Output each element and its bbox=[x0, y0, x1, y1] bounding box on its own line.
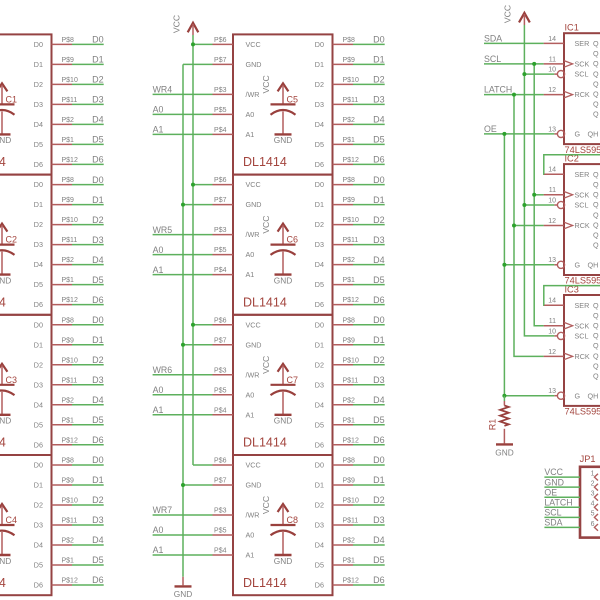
svg-text:D1: D1 bbox=[92, 335, 104, 345]
pin P$10 (D2) of U3 bbox=[52, 357, 78, 365]
svg-text:Q: Q bbox=[593, 341, 599, 350]
pin P$9 (D1) of U2 bbox=[52, 197, 75, 205]
svg-text:D6: D6 bbox=[92, 435, 104, 445]
wire net D0 at U3 bbox=[72, 315, 104, 325]
svg-text:DL1414: DL1414 bbox=[0, 576, 6, 590]
svg-text:Q: Q bbox=[593, 69, 599, 78]
svg-text:OE: OE bbox=[544, 487, 557, 497]
wire QH of IC2 to SER of IC3 bbox=[544, 286, 600, 306]
svg-text:GND: GND bbox=[246, 481, 262, 490]
svg-text:/WR: /WR bbox=[246, 90, 260, 99]
pin P$10 (D2) of U6 bbox=[333, 217, 359, 225]
svg-text:RCK: RCK bbox=[575, 90, 590, 99]
svg-text:D0: D0 bbox=[92, 455, 104, 465]
svg-text:D5: D5 bbox=[34, 561, 43, 570]
svg-text:VCC: VCC bbox=[246, 320, 261, 329]
svg-text:P$8: P$8 bbox=[62, 317, 75, 324]
wire net D6 at U2 bbox=[72, 295, 104, 305]
pin P$7 (GND) of U5 bbox=[213, 57, 234, 65]
svg-text:P$1: P$1 bbox=[343, 277, 356, 284]
svg-text:14: 14 bbox=[548, 298, 556, 305]
svg-text:D5: D5 bbox=[373, 135, 385, 145]
wire net D1 at U4 bbox=[72, 475, 104, 485]
pin P$12 (D6) of U6 bbox=[333, 297, 359, 305]
svg-text:DL1414: DL1414 bbox=[0, 436, 6, 450]
svg-text:12: 12 bbox=[548, 87, 556, 94]
wire net D6 at U1 bbox=[72, 155, 104, 165]
svg-text:P$10: P$10 bbox=[343, 217, 359, 224]
svg-text:P$12: P$12 bbox=[62, 297, 78, 304]
svg-text:P$9: P$9 bbox=[62, 57, 75, 64]
svg-text:D5: D5 bbox=[373, 555, 385, 565]
VCC power symbol (middle column) bbox=[172, 15, 199, 35]
pin P$8 (D0) of U6 bbox=[333, 177, 356, 185]
ground symbol below capacitor C2 bbox=[0, 275, 11, 286]
svg-text:OE: OE bbox=[484, 124, 497, 134]
svg-text:11: 11 bbox=[549, 187, 556, 194]
wire GND branch to U7 bbox=[183, 344, 213, 346]
svg-text:D5: D5 bbox=[34, 280, 43, 289]
svg-text:SER: SER bbox=[575, 39, 590, 48]
wire net D3 at U3 bbox=[72, 375, 104, 385]
svg-text:Q: Q bbox=[593, 331, 599, 340]
svg-text:D1: D1 bbox=[315, 481, 324, 490]
svg-text:VCC: VCC bbox=[261, 496, 271, 514]
svg-text:P$9: P$9 bbox=[343, 57, 356, 64]
svg-text:VCC: VCC bbox=[261, 75, 271, 93]
svg-text:P$10: P$10 bbox=[62, 498, 78, 505]
wire LATCH trunk bbox=[514, 95, 544, 357]
svg-text:P$12: P$12 bbox=[343, 437, 359, 444]
svg-text:Q: Q bbox=[593, 39, 599, 48]
svg-text:D1: D1 bbox=[34, 60, 43, 69]
junction VCC at U7 bbox=[191, 323, 195, 327]
VCC symbol above capacitor C8 bbox=[261, 496, 288, 525]
svg-text:D3: D3 bbox=[92, 235, 104, 245]
svg-text:P$11: P$11 bbox=[343, 377, 359, 384]
svg-text:12: 12 bbox=[548, 349, 556, 356]
wire net D1 at U6 bbox=[353, 195, 385, 205]
svg-text:D5: D5 bbox=[373, 415, 385, 425]
wire OE branch to IC2 pin 13 bbox=[504, 264, 554, 266]
pin P$2 (D4) of U8 bbox=[333, 538, 356, 546]
svg-text:13: 13 bbox=[548, 257, 556, 264]
svg-text:P$11: P$11 bbox=[62, 97, 78, 104]
svg-text:D4: D4 bbox=[34, 260, 43, 269]
svg-text:D5: D5 bbox=[315, 420, 324, 429]
wire net D5 at U3 bbox=[72, 415, 104, 425]
svg-text:P$11: P$11 bbox=[62, 237, 78, 244]
svg-text:WR6: WR6 bbox=[153, 365, 173, 375]
wire net D4 at U5 bbox=[353, 115, 385, 125]
pin 4 of JP1 bbox=[591, 501, 598, 511]
svg-text:D2: D2 bbox=[373, 75, 385, 85]
svg-text:/WR: /WR bbox=[246, 230, 260, 239]
svg-text:P$11: P$11 bbox=[62, 377, 78, 384]
svg-text:GND: GND bbox=[495, 447, 513, 457]
ground symbol below capacitor C7 bbox=[274, 415, 292, 426]
pin P$2 (D4) of U2 bbox=[52, 257, 75, 265]
svg-text:A1: A1 bbox=[246, 551, 255, 560]
pin P$3 (/WR) of U7 bbox=[213, 367, 234, 375]
wire OE branch to IC3 pin 13 bbox=[504, 395, 554, 397]
pin P$12 (D6) of U1 bbox=[52, 157, 78, 165]
VCC power symbol (right) bbox=[503, 5, 530, 25]
svg-text:SCL: SCL bbox=[544, 507, 561, 517]
svg-text:D3: D3 bbox=[315, 380, 324, 389]
svg-text:10: 10 bbox=[548, 197, 556, 204]
svg-text:P$4: P$4 bbox=[214, 267, 227, 274]
svg-text:P$9: P$9 bbox=[343, 478, 356, 485]
display U5 DL1414 bbox=[233, 34, 333, 174]
svg-text:VCC: VCC bbox=[261, 356, 271, 374]
wire net D4 at U4 bbox=[72, 535, 104, 545]
svg-text:D6: D6 bbox=[373, 295, 385, 305]
wire VCC trunk (middle column) bbox=[192, 35, 194, 465]
svg-text:1: 1 bbox=[591, 471, 595, 478]
svg-text:DL1414: DL1414 bbox=[243, 155, 287, 169]
svg-text:Q: Q bbox=[593, 49, 599, 58]
pin P$7 (GND) of U8 bbox=[213, 478, 234, 486]
svg-text:/WR: /WR bbox=[246, 511, 260, 520]
svg-text:D4: D4 bbox=[92, 115, 104, 125]
wire net D0 at U1 bbox=[72, 35, 104, 45]
svg-text:D1: D1 bbox=[315, 340, 324, 349]
svg-text:P$10: P$10 bbox=[343, 357, 359, 364]
svg-text:GND: GND bbox=[0, 416, 11, 426]
svg-text:D4: D4 bbox=[92, 255, 104, 265]
wire net D3 at U4 bbox=[72, 515, 104, 525]
display U4 DL1414 bbox=[0, 455, 52, 595]
output pins QA-QH of IC1 bbox=[593, 39, 599, 119]
svg-text:D2: D2 bbox=[315, 360, 324, 369]
svg-text:Q: Q bbox=[593, 361, 599, 370]
svg-text:QH: QH bbox=[588, 130, 599, 139]
svg-text:P$1: P$1 bbox=[343, 558, 356, 565]
svg-text:6: 6 bbox=[591, 521, 595, 528]
svg-text:P$3: P$3 bbox=[214, 508, 227, 515]
svg-text:D5: D5 bbox=[92, 275, 104, 285]
junction GND at U8 bbox=[181, 483, 185, 487]
svg-text:P$4: P$4 bbox=[214, 127, 227, 134]
pin P$3 (/WR) of U8 bbox=[213, 508, 234, 516]
pin P$10 (D2) of U7 bbox=[333, 357, 359, 365]
svg-text:P$11: P$11 bbox=[343, 97, 359, 104]
pin P$2 (D4) of U6 bbox=[333, 257, 356, 265]
capacitor C8 bbox=[271, 515, 299, 555]
pin P$1 (D5) of U4 bbox=[52, 558, 75, 566]
VCC symbol above capacitor C2 bbox=[0, 216, 7, 245]
svg-text:D4: D4 bbox=[373, 115, 385, 125]
svg-text:P$2: P$2 bbox=[343, 538, 356, 545]
svg-text:P$2: P$2 bbox=[343, 117, 356, 124]
svg-text:D0: D0 bbox=[373, 175, 385, 185]
svg-text:GND: GND bbox=[0, 556, 11, 566]
pin P$11 (D3) of U1 bbox=[52, 97, 78, 105]
wire SCL trunk bbox=[534, 64, 543, 326]
svg-text:2: 2 bbox=[591, 481, 595, 488]
svg-text:P$1: P$1 bbox=[62, 558, 75, 565]
svg-text:D3: D3 bbox=[315, 240, 324, 249]
VCC symbol above capacitor C5 bbox=[261, 75, 288, 104]
svg-text:VCC: VCC bbox=[261, 216, 271, 234]
ground symbol below R1 bbox=[495, 444, 513, 457]
svg-text:JP1: JP1 bbox=[580, 454, 596, 464]
wire net WR4 to U5 bbox=[153, 85, 213, 95]
wire SCL branch to IC2 pin 11 bbox=[534, 194, 543, 196]
svg-text:10: 10 bbox=[548, 328, 556, 335]
wire net OE to IC1 pin 13 bbox=[484, 124, 554, 134]
svg-text:A1: A1 bbox=[153, 545, 164, 555]
svg-text:D2: D2 bbox=[315, 80, 324, 89]
svg-text:D4: D4 bbox=[34, 400, 43, 409]
pin P$3 (/WR) of U5 bbox=[213, 87, 234, 95]
connector JP1 bbox=[580, 454, 600, 538]
svg-text:GND: GND bbox=[246, 200, 262, 209]
svg-text:D0: D0 bbox=[34, 40, 43, 49]
svg-text:A0: A0 bbox=[246, 390, 255, 399]
svg-text:D4: D4 bbox=[315, 400, 324, 409]
svg-text:P$8: P$8 bbox=[62, 37, 75, 44]
capacitor C6 bbox=[271, 235, 299, 275]
svg-text:10: 10 bbox=[548, 67, 556, 74]
pin P$8 (D0) of U2 bbox=[52, 177, 75, 185]
pin P$5 (A0) of U8 bbox=[213, 528, 234, 536]
svg-text:Q: Q bbox=[593, 200, 599, 209]
pin P$12 (D6) of U3 bbox=[52, 437, 78, 445]
pin P$5 (A0) of U5 bbox=[213, 107, 234, 115]
svg-text:D5: D5 bbox=[315, 280, 324, 289]
pin P$10 (D2) of U8 bbox=[333, 498, 359, 506]
wire net VCC to JP1 pin 1 bbox=[544, 467, 580, 477]
svg-text:5: 5 bbox=[591, 511, 595, 518]
svg-text:P$3: P$3 bbox=[214, 367, 227, 374]
svg-text:A1: A1 bbox=[153, 405, 164, 415]
svg-text:P$7: P$7 bbox=[214, 197, 227, 204]
wire VCC branch to U5 bbox=[193, 43, 213, 45]
pin 10 (SCL) of IC1 bbox=[548, 67, 588, 79]
svg-text:D4: D4 bbox=[373, 395, 385, 405]
svg-text:SCK: SCK bbox=[575, 60, 590, 69]
svg-text:A0: A0 bbox=[246, 531, 255, 540]
wire net WR5 to U6 bbox=[153, 225, 213, 235]
svg-text:DL1414: DL1414 bbox=[0, 155, 6, 169]
svg-text:P$5: P$5 bbox=[214, 247, 227, 254]
pin 3 of JP1 bbox=[591, 491, 598, 501]
svg-text:P$2: P$2 bbox=[62, 117, 75, 124]
svg-text:P$12: P$12 bbox=[62, 157, 78, 164]
svg-text:C2: C2 bbox=[6, 235, 18, 245]
wire net D0 at U6 bbox=[353, 175, 385, 185]
svg-text:D2: D2 bbox=[92, 215, 104, 225]
svg-text:D2: D2 bbox=[373, 215, 385, 225]
wire net D4 at U2 bbox=[72, 255, 104, 265]
wire QH of IC1 to SER of IC2 bbox=[544, 155, 600, 175]
pin P$1 (D5) of U2 bbox=[52, 277, 75, 285]
junction OE at IC2 bbox=[502, 263, 506, 267]
svg-text:D1: D1 bbox=[34, 340, 43, 349]
svg-text:A1: A1 bbox=[246, 130, 255, 139]
svg-text:P$8: P$8 bbox=[343, 317, 356, 324]
VCC symbol above capacitor C1 bbox=[0, 75, 7, 104]
svg-text:D0: D0 bbox=[92, 35, 104, 45]
pin P$3 (/WR) of U6 bbox=[213, 227, 234, 235]
svg-text:D4: D4 bbox=[92, 395, 104, 405]
svg-text:P$10: P$10 bbox=[62, 357, 78, 364]
output pins QA-QH of IC2 bbox=[593, 170, 599, 250]
pin P$12 (D6) of U8 bbox=[333, 578, 359, 586]
svg-text:Q: Q bbox=[593, 180, 599, 189]
svg-text:D6: D6 bbox=[34, 581, 43, 590]
pin P$9 (D1) of U5 bbox=[333, 57, 356, 65]
svg-text:R1: R1 bbox=[488, 419, 498, 431]
svg-text:Q: Q bbox=[593, 79, 599, 88]
svg-text:RCK: RCK bbox=[575, 221, 590, 230]
svg-text:D6: D6 bbox=[92, 155, 104, 165]
wire net D0 at U5 bbox=[353, 35, 385, 45]
svg-text:P$5: P$5 bbox=[214, 387, 227, 394]
svg-text:D3: D3 bbox=[34, 521, 43, 530]
pin P$6 (VCC) of U8 bbox=[213, 458, 234, 466]
pin P$12 (D6) of U7 bbox=[333, 437, 359, 445]
svg-text:P$4: P$4 bbox=[214, 407, 227, 414]
svg-text:VCC: VCC bbox=[172, 15, 182, 33]
svg-text:P$2: P$2 bbox=[62, 257, 75, 264]
svg-text:D3: D3 bbox=[92, 375, 104, 385]
svg-text:D1: D1 bbox=[373, 195, 385, 205]
svg-text:P$8: P$8 bbox=[62, 177, 75, 184]
svg-text:D1: D1 bbox=[315, 200, 324, 209]
pin P$9 (D1) of U3 bbox=[52, 337, 75, 345]
pin P$6 (VCC) of U7 bbox=[213, 317, 234, 325]
svg-text:D6: D6 bbox=[373, 155, 385, 165]
svg-text:D0: D0 bbox=[373, 315, 385, 325]
wire net D2 at U2 bbox=[72, 215, 104, 225]
svg-text:D3: D3 bbox=[315, 100, 324, 109]
svg-text:D6: D6 bbox=[92, 575, 104, 585]
svg-text:DL1414: DL1414 bbox=[243, 295, 287, 309]
wire net D5 at U4 bbox=[72, 555, 104, 565]
svg-text:D2: D2 bbox=[92, 495, 104, 505]
svg-text:P$10: P$10 bbox=[343, 77, 359, 84]
pin P$12 (D6) of U4 bbox=[52, 578, 78, 586]
wire net D6 at U4 bbox=[72, 575, 104, 585]
svg-text:SCL: SCL bbox=[575, 332, 589, 341]
svg-text:D4: D4 bbox=[315, 541, 324, 550]
capacitor C5 bbox=[271, 94, 299, 134]
svg-text:A0: A0 bbox=[153, 525, 164, 535]
svg-text:A0: A0 bbox=[153, 105, 164, 115]
svg-text:P$2: P$2 bbox=[343, 257, 356, 264]
svg-text:D2: D2 bbox=[373, 355, 385, 365]
wire VCC branch to IC2 pin 10 bbox=[524, 204, 554, 206]
svg-text:Q: Q bbox=[593, 311, 599, 320]
VCC symbol above capacitor C7 bbox=[261, 356, 288, 385]
svg-text:P$7: P$7 bbox=[214, 337, 227, 344]
svg-text:11: 11 bbox=[549, 318, 556, 325]
svg-text:LATCH: LATCH bbox=[484, 85, 512, 95]
svg-text:P$1: P$1 bbox=[343, 417, 356, 424]
svg-text:P$12: P$12 bbox=[343, 578, 359, 585]
svg-text:Q: Q bbox=[593, 372, 599, 381]
svg-text:D6: D6 bbox=[315, 581, 324, 590]
svg-text:DL1414: DL1414 bbox=[243, 576, 287, 590]
pin P$5 (A0) of U6 bbox=[213, 247, 234, 255]
svg-text:D2: D2 bbox=[34, 220, 43, 229]
svg-text:D6: D6 bbox=[315, 440, 324, 449]
pin 2 of JP1 bbox=[591, 481, 598, 491]
wire VCC branch to IC1 pin 10 bbox=[524, 73, 554, 75]
wire net D6 at U7 bbox=[353, 435, 385, 445]
svg-text:D3: D3 bbox=[373, 95, 385, 105]
ground symbol below capacitor C3 bbox=[0, 415, 11, 426]
pin P$1 (D5) of U6 bbox=[333, 277, 356, 285]
pin 14 (SER) of IC3 bbox=[544, 298, 590, 310]
pin P$2 (D4) of U3 bbox=[52, 397, 75, 405]
wire net D3 at U6 bbox=[353, 235, 385, 245]
svg-text:SER: SER bbox=[575, 170, 590, 179]
ground symbol below capacitor C5 bbox=[274, 134, 292, 145]
svg-text:C4: C4 bbox=[6, 515, 18, 525]
wire OE to resistor R1 bbox=[503, 396, 505, 401]
svg-text:D0: D0 bbox=[34, 461, 43, 470]
svg-text:D4: D4 bbox=[34, 541, 43, 550]
wire net D2 at U6 bbox=[353, 215, 385, 225]
junction OE at IC1 bbox=[502, 132, 506, 136]
svg-text:D1: D1 bbox=[92, 195, 104, 205]
pin P$11 (D3) of U3 bbox=[52, 377, 78, 385]
svg-text:Q: Q bbox=[593, 351, 599, 360]
wire net D1 at U7 bbox=[353, 335, 385, 345]
wire net D4 at U1 bbox=[72, 115, 104, 125]
svg-text:QH: QH bbox=[588, 391, 599, 400]
svg-text:P$11: P$11 bbox=[343, 518, 359, 525]
svg-text:P$12: P$12 bbox=[62, 437, 78, 444]
wire net A1 to U6 bbox=[153, 265, 213, 275]
svg-text:P$8: P$8 bbox=[62, 458, 75, 465]
svg-text:D2: D2 bbox=[92, 75, 104, 85]
svg-text:P$8: P$8 bbox=[343, 458, 356, 465]
svg-text:P$12: P$12 bbox=[62, 578, 78, 585]
svg-text:A0: A0 bbox=[153, 385, 164, 395]
svg-text:A1: A1 bbox=[246, 410, 255, 419]
wire net D4 at U3 bbox=[72, 395, 104, 405]
svg-text:A0: A0 bbox=[246, 110, 255, 119]
wire net D1 at U8 bbox=[353, 475, 385, 485]
svg-text:D0: D0 bbox=[34, 180, 43, 189]
svg-text:DL1414: DL1414 bbox=[0, 295, 6, 309]
svg-text:D2: D2 bbox=[92, 355, 104, 365]
svg-text:D2: D2 bbox=[315, 220, 324, 229]
pin P$8 (D0) of U4 bbox=[52, 458, 75, 466]
capacitor C7 bbox=[271, 375, 299, 415]
wire net D0 at U4 bbox=[72, 455, 104, 465]
wire net A0 to U8 bbox=[153, 525, 213, 535]
svg-text:Q: Q bbox=[593, 90, 599, 99]
svg-text:12: 12 bbox=[548, 218, 556, 225]
svg-text:13: 13 bbox=[548, 126, 556, 133]
svg-text:P$10: P$10 bbox=[62, 217, 78, 224]
junction VCC at IC2 bbox=[522, 203, 526, 207]
ground symbol below capacitor C1 bbox=[0, 134, 11, 145]
svg-text:D0: D0 bbox=[315, 320, 324, 329]
junction GND at U6 bbox=[181, 203, 185, 207]
svg-text:P$8: P$8 bbox=[343, 177, 356, 184]
svg-text:P$6: P$6 bbox=[214, 37, 227, 44]
svg-text:SCL: SCL bbox=[484, 54, 501, 64]
svg-text:D5: D5 bbox=[92, 555, 104, 565]
pin P$7 (GND) of U6 bbox=[213, 197, 234, 205]
